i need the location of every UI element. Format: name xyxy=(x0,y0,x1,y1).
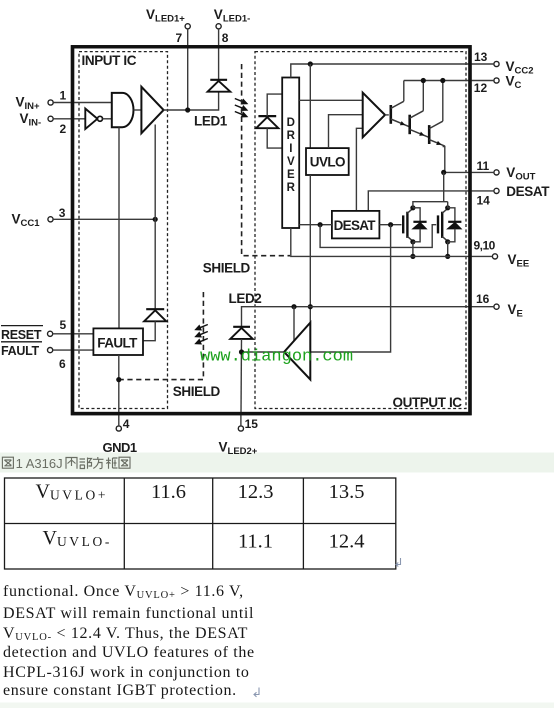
pin 1 VIN+ circle xyxy=(48,100,53,105)
pin number 5 xyxy=(60,318,67,332)
transistor Q1 xyxy=(391,101,409,126)
MOSFET M2 source lead xyxy=(442,236,448,241)
table value 11.6 xyxy=(151,481,186,503)
MOSFET M1 channel xyxy=(406,212,408,238)
wire pin14 stub xyxy=(470,190,494,192)
svg-text:12.4: 12.4 xyxy=(329,531,365,553)
svg-text:6: 6 xyxy=(59,357,66,371)
paragraph text xyxy=(3,583,255,699)
wire Q3 emitter down to VOUT node xyxy=(443,147,445,173)
AND gate U3 xyxy=(112,93,134,127)
FAULT logic box xyxy=(93,328,143,355)
svg-text:VUVLO- < 12.4 V. Thus, the DES: VUVLO- < 12.4 V. Thus, the DESAT xyxy=(3,625,248,643)
svg-text:SHIELD: SHIELD xyxy=(173,384,221,399)
svg-text:VUVLO-: VUVLO- xyxy=(43,527,112,549)
pin number 13 xyxy=(474,50,488,64)
table value 11.1 xyxy=(238,531,273,553)
transistor Q3 xyxy=(429,121,445,146)
svg-text:LED1: LED1 xyxy=(194,114,228,129)
watermark www.diangon.com xyxy=(200,348,353,367)
junction M1 source / VEE rail xyxy=(410,254,415,259)
label VLED1- xyxy=(214,7,250,25)
pin 4 GND1 circle xyxy=(116,426,121,431)
pin 6 FAULT circle xyxy=(48,348,53,353)
svg-text:13.5: 13.5 xyxy=(329,481,365,503)
label VE xyxy=(508,302,523,320)
transistor Q2 xyxy=(410,111,429,137)
svg-text:4: 4 xyxy=(123,417,130,431)
svg-text:VLED2+: VLED2+ xyxy=(219,440,258,458)
wire VCC2 rail from DRIVER top to pin 13 xyxy=(291,64,471,78)
svg-text:5: 5 xyxy=(60,318,67,332)
table UVLO thresholds xyxy=(5,478,396,569)
wire FAULT box bottom to GND1 pin4 xyxy=(118,355,120,414)
junction DESAT output / comparator feed xyxy=(388,222,393,227)
label FAULT with overbar xyxy=(1,342,42,358)
wire DESAT output down to LED2 amp input xyxy=(310,225,391,352)
junction buffer output / pin7 xyxy=(185,107,190,112)
pin 15 VLED2+ circle xyxy=(238,426,243,431)
output IC dashed box xyxy=(255,52,466,409)
label SHIELD (upper) xyxy=(203,261,251,276)
label VC xyxy=(506,74,522,92)
pin number 7 xyxy=(176,31,183,45)
wire LED2 amp output to LED2 anode xyxy=(242,351,285,353)
wire pin11 stub xyxy=(470,171,494,173)
VE rail wire from LED2 to pin 16 xyxy=(242,307,471,327)
svg-text:ensure constant IGBT protectio: ensure constant IGBT protection. xyxy=(3,682,237,699)
wire UVLO bottom long vertical to VE rail and LED2 amp corner xyxy=(309,175,311,323)
wire gate route to right MOSFET (S path) xyxy=(320,225,436,248)
junction M2 drain node xyxy=(445,205,450,210)
light arrows LED1 to output detector xyxy=(235,99,247,117)
pin 16 VE circle xyxy=(494,304,499,309)
MOSFET M1 (left) gate bar xyxy=(402,215,404,233)
junction GND1 / shield xyxy=(116,377,121,382)
wire AND to buffer xyxy=(134,109,142,111)
svg-text:FAULT: FAULT xyxy=(1,344,40,358)
svg-text:1 A316J: 1 A316J xyxy=(16,456,63,471)
junction M2 source node xyxy=(445,239,450,244)
pin number 1 xyxy=(60,89,67,103)
label VOUT xyxy=(506,165,535,183)
table header VUVLO+ xyxy=(36,481,109,503)
svg-text:2: 2 xyxy=(60,122,67,136)
wire DESAT riser to amp input 3 xyxy=(356,128,362,211)
label OUTPUT IC xyxy=(393,395,463,410)
junction VCC1/buffer xyxy=(153,217,158,222)
wire M1 source node to VEE rail xyxy=(412,242,414,257)
svg-text:VUVLO+: VUVLO+ xyxy=(36,481,109,503)
label FAULT box xyxy=(97,336,138,351)
MOSFET M2 (right) gate bar xyxy=(437,215,439,233)
wire pin8 down to LED1 cathode xyxy=(218,29,220,80)
label LED2 xyxy=(229,291,262,306)
pin 2 VIN- circle xyxy=(48,116,53,121)
label VLED2+ xyxy=(219,440,258,458)
wire inverter to AND gate xyxy=(103,118,112,120)
label VIN+ xyxy=(16,95,41,113)
svg-text:detection and UVLO features of: detection and UVLO features of the xyxy=(3,644,255,661)
pin number 9,10 xyxy=(474,239,496,253)
wire pin4 up into box xyxy=(118,414,120,426)
svg-text:15: 15 xyxy=(245,417,259,431)
svg-text:I: I xyxy=(289,143,292,155)
label UVLO box xyxy=(310,155,345,170)
label DESAT box xyxy=(334,218,377,233)
pin number 11 xyxy=(477,159,490,173)
pin 12 VC circle xyxy=(494,78,499,83)
svg-text:R: R xyxy=(287,130,296,142)
wire pin1 to AND gate xyxy=(53,102,112,104)
svg-text:11.6: 11.6 xyxy=(151,481,186,503)
svg-text:9,10: 9,10 xyxy=(474,239,496,253)
wire photodiode D3 top to DRIVER xyxy=(267,94,282,116)
buffer amp U4 xyxy=(141,87,163,133)
outer IC package box border overdraw xyxy=(73,47,471,414)
wire Q3 collector riser to VC rail xyxy=(442,81,444,122)
wire photodiode D3 bottom to DRIVER xyxy=(267,128,282,148)
MOSFET M1 drain lead xyxy=(407,208,413,213)
junction Q2 collector / VC rail xyxy=(421,78,426,83)
label VCC2 xyxy=(506,59,534,77)
UVLO box xyxy=(306,148,349,175)
input IC dashed box xyxy=(79,52,168,409)
junction VCC2 / UVLO feed xyxy=(308,61,313,66)
pin 14 DESAT circle xyxy=(494,188,499,193)
svg-text:11.1: 11.1 xyxy=(238,531,273,553)
pin 13 VCC2 circle xyxy=(494,61,499,66)
LED2 amp U6 (points left) xyxy=(284,323,310,380)
junction M1 source node xyxy=(410,239,415,244)
pin number 8 xyxy=(222,31,229,45)
svg-text:VIN-: VIN- xyxy=(20,111,42,129)
caption background strip xyxy=(0,453,554,473)
svg-text:FAULT: FAULT xyxy=(97,336,138,351)
wire pin16 stub xyxy=(470,306,494,308)
pin number 4 xyxy=(123,417,130,431)
junction M2 source / VEE rail xyxy=(445,254,450,259)
pin number 14 xyxy=(477,194,491,208)
wire DESAT right to left MOSFET gate xyxy=(379,224,401,226)
wire buffer bottom to input photodiode xyxy=(154,125,156,310)
wire VOUT node down to MOSFET drain bus xyxy=(443,172,445,201)
wire DRIVER right to amp input 1 xyxy=(299,99,363,101)
svg-text:14: 14 xyxy=(477,194,491,208)
wire VCC2 junction down to UVLO top xyxy=(309,64,311,148)
svg-text:DESAT will remain functional u: DESAT will remain functional until xyxy=(3,605,254,622)
svg-text:LED2: LED2 xyxy=(229,291,262,306)
svg-text:V: V xyxy=(287,156,295,168)
LED1 xyxy=(208,80,231,92)
svg-text:DESAT: DESAT xyxy=(334,218,377,233)
wire Q2 collector riser to VC rail xyxy=(422,81,424,111)
svg-text:11: 11 xyxy=(477,159,490,173)
body diode D5 of M2 xyxy=(448,208,462,242)
wire pin13 stub xyxy=(470,63,494,65)
svg-text:12.3: 12.3 xyxy=(238,481,274,503)
MOSFET M1 source lead xyxy=(407,236,413,241)
junction DESAT input / MOSFET gate route xyxy=(318,222,323,227)
wire pin3 VCC1 to buffer supply xyxy=(53,218,155,220)
label RESET with overbar xyxy=(1,326,43,342)
inverter U2 on VIN- xyxy=(85,109,102,129)
photodiode D3 (main receiver, output side) xyxy=(256,116,278,128)
svg-text:8: 8 xyxy=(222,31,229,45)
junction VOUT xyxy=(441,170,446,175)
wire VOUT node to pin 11 xyxy=(444,171,471,173)
wire M2 drain node riser to drain bus xyxy=(447,202,449,208)
pin number 16 xyxy=(476,292,490,306)
label INPUT IC xyxy=(82,53,137,68)
svg-text:SHIELD: SHIELD xyxy=(203,261,251,276)
svg-text:OUTPUT IC: OUTPUT IC xyxy=(393,395,463,410)
svg-text:VLED1-: VLED1- xyxy=(214,7,250,25)
svg-text:INPUT IC: INPUT IC xyxy=(82,53,137,68)
output amp U5 xyxy=(363,93,385,138)
svg-text:VIN+: VIN+ xyxy=(16,95,41,113)
label VCC1 xyxy=(12,212,41,230)
wire pin6 to FAULT box xyxy=(53,349,94,351)
light arrows LED2 to input detector xyxy=(196,325,208,344)
wire VC rail to pin 12 xyxy=(404,80,471,82)
wire amp to transistor Q1 base xyxy=(385,114,389,116)
MOSFET M2 drain lead xyxy=(442,208,448,213)
wire Q1 collector riser to VC rail xyxy=(403,81,405,102)
wire pin9,10 stub xyxy=(470,255,492,257)
svg-text:GND1: GND1 xyxy=(103,440,137,455)
shield dashed line (LED2 optical barrier, to GND1) xyxy=(121,292,203,380)
wire UVLO top to amp input 2 xyxy=(329,115,363,148)
pin 8 VLED1- circle xyxy=(216,24,221,29)
pin number 15 xyxy=(245,417,259,431)
return mark after table xyxy=(396,558,401,567)
svg-text:DESAT: DESAT xyxy=(506,184,550,199)
label VIN- xyxy=(20,111,42,129)
label DESAT pin xyxy=(506,184,550,199)
wire AND gate bottom to FAULT box xyxy=(118,127,120,328)
pin number 2 xyxy=(60,122,67,136)
body diode D4 of M1 xyxy=(413,208,427,242)
photodiode D2 (fault receiver, input side) xyxy=(144,309,166,321)
wire LED2 anode down to pin 15 xyxy=(240,339,243,414)
table value 13.5 xyxy=(329,481,365,503)
wire pin2 to inverter xyxy=(53,118,85,120)
wire photodiode D2 to FAULT box right side xyxy=(143,321,155,340)
pin 5 RESET circle xyxy=(48,331,53,336)
DESAT box xyxy=(332,211,380,239)
wire M2 source node to VEE rail xyxy=(447,242,449,257)
table header VUVLO- xyxy=(43,527,112,549)
junction M1 drain node xyxy=(410,205,415,210)
LED2 xyxy=(230,327,253,339)
pin 9,10 VEE circle xyxy=(492,254,497,259)
wire DRIVER right to DESAT left xyxy=(299,224,332,226)
caption figure title xyxy=(2,457,13,468)
svg-text:VE: VE xyxy=(508,302,523,320)
svg-text:VOUT: VOUT xyxy=(506,165,535,183)
pin 11 VOUT circle xyxy=(494,170,499,175)
shield dashed line (LED1 optical barrier) xyxy=(242,64,290,256)
wire M1 drain node to drain bus xyxy=(413,202,448,208)
pin 3 VCC1 circle xyxy=(48,217,53,222)
junction UVLO line / VE rail xyxy=(308,304,313,309)
wire VE rail to LED2 amp top edge xyxy=(293,307,295,341)
svg-text:R: R xyxy=(287,182,296,194)
svg-text:VEE: VEE xyxy=(508,252,530,270)
wire buffer output to LED1 xyxy=(164,92,219,110)
label LED1 xyxy=(194,114,228,129)
pin number 3 xyxy=(59,206,66,220)
wire DESAT sense line to pin 14 xyxy=(368,191,470,211)
pin number 12 xyxy=(474,81,488,95)
svg-text:HCPL-316J work in conjunction: HCPL-316J work in conjunction to xyxy=(3,664,250,681)
table value 12.3 xyxy=(238,481,274,503)
svg-text:12: 12 xyxy=(474,81,488,95)
wire DRIVER bottom to VEE rail xyxy=(291,228,471,256)
junction LED2 anode / amp output xyxy=(239,349,244,354)
svg-text:UVLO: UVLO xyxy=(310,155,345,170)
label VEE xyxy=(508,252,530,270)
DRIVER box xyxy=(282,78,299,229)
return mark after paragraph xyxy=(254,688,259,697)
junction Q3 collector / VC rail xyxy=(440,78,445,83)
svg-text:3: 3 xyxy=(59,206,66,220)
label GND1 xyxy=(103,440,137,455)
MOSFET M2 channel xyxy=(441,212,443,238)
label SHIELD (lower) xyxy=(173,384,221,399)
svg-text:1: 1 xyxy=(60,89,67,103)
svg-text:13: 13 xyxy=(474,50,488,64)
label VLED1+ xyxy=(146,7,185,25)
wire pin12 stub xyxy=(470,80,494,82)
svg-text:RESET: RESET xyxy=(1,328,42,342)
outer IC package box xyxy=(73,47,471,414)
svg-text:E: E xyxy=(287,169,295,181)
label DRIVER (vertical) xyxy=(287,117,296,194)
svg-text:7: 7 xyxy=(176,31,183,45)
junction VE rail / amp bias xyxy=(291,304,296,309)
svg-text:www.diangon.com: www.diangon.com xyxy=(200,348,353,367)
wire pin15 up into box xyxy=(240,414,242,426)
svg-text:D: D xyxy=(287,117,295,129)
pin 7 VLED1+ circle xyxy=(185,24,190,29)
svg-text:VCC1: VCC1 xyxy=(12,212,41,230)
svg-text:functional. Once VUVLO+ > 11.6: functional. Once VUVLO+ > 11.6 V, xyxy=(3,583,244,601)
wire pin5 to FAULT box xyxy=(53,333,94,335)
svg-text:16: 16 xyxy=(476,292,490,306)
svg-text:VLED1+: VLED1+ xyxy=(146,7,185,25)
pin number 6 xyxy=(59,357,66,371)
table value 12.4 xyxy=(329,531,365,553)
wire pin7 down to LED1 anode node xyxy=(187,29,189,110)
bottom page strip xyxy=(0,703,554,708)
